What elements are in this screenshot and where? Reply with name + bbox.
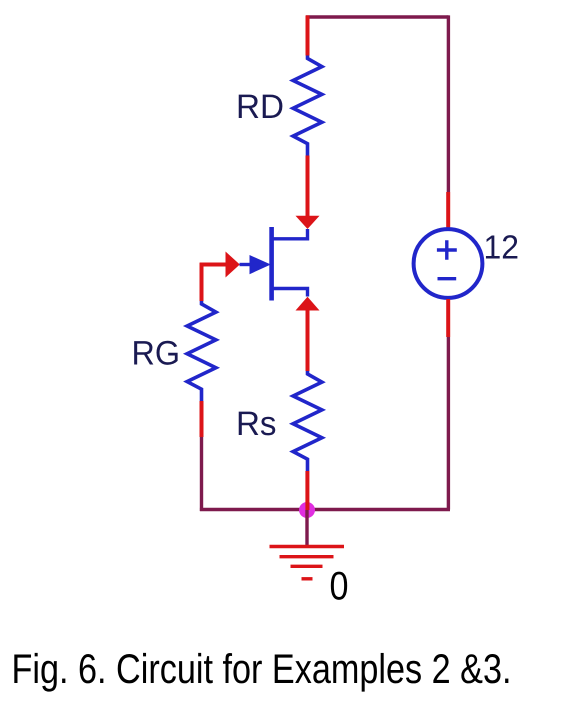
pin lead RG bottom (red) [200,401,204,437]
resistor RG [187,301,216,401]
transistor M1 drain lead [272,229,308,241]
current arrow source (red, up) [296,297,320,311]
wire top rail (VDD net) [306,15,449,18]
pin lead RG top (red) [200,263,226,301]
label Rs [236,405,277,443]
pin lead Rs bottom (red) [305,471,309,510]
pin lead V1 bottom (red) [446,299,450,337]
svg-text:Rs: Rs [236,405,277,443]
transistor M1 source lead [272,287,308,297]
transistor M1 body bar [269,227,274,301]
current arrow drain (red, down) [296,216,320,229]
transistor M1 gate arrow [250,255,271,274]
label RD [236,88,284,126]
wire ground stub (maroon) [305,510,308,546]
wire right vertical lower (maroon) [307,337,450,510]
ground symbol 0 [270,547,345,579]
wire bottom rail left (maroon) [200,508,307,511]
svg-text:0: 0 [330,565,349,609]
caption text [12,645,512,692]
pin lead V1 top (red) [446,192,450,228]
svg-text:RD: RD [236,88,284,126]
svg-text:Fig. 6. Circuit for Examples 2: Fig. 6. Circuit for Examples 2 &3. [12,645,512,692]
wire left vertical lower (maroon) [200,437,203,511]
voltage source V1 [414,229,483,298]
node junction dot (magenta) [299,502,315,518]
current arrow gate (red) [226,252,240,278]
pin lead Rs top (red) [306,305,310,371]
svg-text:RG: RG [132,335,181,373]
node label 0 [330,565,349,609]
resistor RD [293,56,322,156]
value label 12 [484,229,520,266]
label RG [132,335,181,373]
pin lead RD top (red) [306,15,310,55]
svg-text:12: 12 [484,229,520,266]
resistor Rs [293,371,322,471]
pin lead RD bottom / drain wire (red) [306,156,310,218]
wire gate lead (blue) [240,263,252,266]
wire right vertical upper (maroon) [447,15,450,192]
